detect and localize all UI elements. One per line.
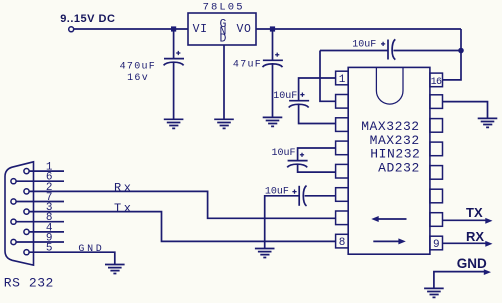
svg-text:9..15V DC: 9..15V DC	[60, 13, 115, 25]
DB9 connector body	[5, 162, 34, 265]
node junction at 470uF	[171, 26, 176, 31]
IC right pin boxes	[430, 73, 443, 250]
label RS 232	[4, 275, 54, 290]
svg-text:MAX232: MAX232	[370, 133, 420, 148]
DB9 pin 7 stub	[16, 201, 64, 203]
label 47uF	[233, 60, 262, 71]
label GND (DB9)	[78, 244, 104, 255]
node junction VCC C1	[458, 48, 464, 54]
ground (470uF)	[164, 119, 184, 128]
svg-text:RS 232: RS 232	[4, 275, 54, 290]
label 470uF 16v	[120, 61, 157, 84]
DB9 pin 4 stub	[29, 231, 64, 233]
label C4 10uF	[265, 187, 289, 198]
svg-text:MAX3232: MAX3232	[361, 119, 419, 134]
IC left pin boxes	[336, 71, 349, 248]
capacitor C2 10uF (pins 1-3)	[289, 93, 309, 108]
svg-text:HIN232: HIN232	[370, 147, 420, 162]
IC notch	[376, 67, 403, 104]
label RX	[466, 229, 484, 244]
label HIN232	[370, 147, 420, 162]
svg-text:16v: 16v	[127, 73, 149, 84]
label TX	[466, 205, 483, 220]
wire VO 5V rail	[256, 28, 461, 30]
svg-text:GND: GND	[78, 244, 104, 255]
wire pin 1 to C2	[299, 78, 336, 101]
wire pin 15 to ground	[443, 102, 488, 119]
svg-text:470uF: 470uF	[120, 61, 157, 72]
wire C3 to pin 5	[298, 165, 336, 172]
ground (pin15)	[478, 118, 498, 127]
ground (output)	[424, 288, 444, 297]
svg-text:10uF: 10uF	[352, 39, 376, 50]
svg-text:78L05: 78L05	[203, 1, 245, 13]
DB9 pin circles left column 6,7,8,9	[11, 179, 16, 245]
ground (47uF)	[263, 117, 283, 126]
label 9..15V DC	[60, 13, 115, 25]
capacitor C4 10uF (pin 6)	[292, 186, 306, 206]
regulator U 78L05 box	[188, 13, 256, 45]
node junction at 47uF	[270, 26, 275, 31]
label C2 10uF	[273, 91, 297, 102]
wire junction down to C 470uF	[173, 29, 175, 59]
label MAX232	[370, 133, 420, 148]
label C1 10uF	[352, 39, 376, 50]
input terminal circle	[69, 27, 74, 32]
svg-text:AD232: AD232	[378, 161, 420, 176]
label 78L05	[203, 1, 245, 13]
DB9 pin 1 stub	[29, 170, 64, 172]
label Rx	[114, 181, 134, 195]
DB9 pin circles right column 1,2,3,4,5	[24, 169, 29, 255]
DB9 pin numbers	[46, 162, 53, 255]
wire GND out	[434, 269, 491, 288]
label C3 10uF	[272, 148, 296, 159]
wire RX out	[443, 241, 493, 247]
arrow right (RX direction)	[373, 238, 406, 244]
wire input to VI	[74, 28, 188, 30]
pin label GND vertical	[220, 18, 227, 46]
ground (DB9 pin5)	[105, 265, 125, 274]
svg-text:Tx: Tx	[114, 201, 134, 215]
wire pin 4 to C3	[298, 148, 336, 161]
wire C2 to pin 3	[299, 105, 336, 124]
svg-text:10uF: 10uF	[273, 91, 297, 102]
pin number 16	[431, 77, 442, 88]
wire junction down to C 47uF	[272, 29, 274, 60]
ground (78L05)	[214, 119, 234, 128]
wire C4 bar side to ground	[265, 196, 300, 249]
svg-text:Rx: Rx	[114, 181, 134, 195]
wire DB9 pin5 to ground	[29, 252, 115, 264]
wire 78L05 GND pin to ground	[223, 45, 225, 119]
pin label VI	[193, 23, 208, 36]
svg-text:GND: GND	[457, 256, 487, 271]
wire C 470uF to ground	[173, 63, 175, 119]
capacitor C 47uF	[263, 53, 283, 68]
svg-text:VO: VO	[237, 23, 252, 36]
wire Tx pin3 to pin8 of IC	[29, 212, 336, 242]
svg-text:9: 9	[433, 239, 440, 251]
DB9 pin 9 stub	[16, 241, 64, 243]
IC U1 body	[348, 67, 430, 254]
pin number 1	[339, 74, 346, 86]
arrow left (TX direction)	[371, 216, 406, 222]
label GND out	[457, 256, 487, 271]
pin label VO	[237, 23, 252, 36]
svg-text:8: 8	[339, 237, 346, 249]
wire VCC node to pin 16	[443, 51, 461, 80]
label AD232	[378, 161, 420, 176]
pin number 8	[339, 237, 346, 249]
wire rail corner down to VCC node	[460, 29, 462, 51]
svg-text:D: D	[220, 33, 227, 46]
label Tx	[114, 201, 134, 215]
svg-text:10uF: 10uF	[272, 148, 296, 159]
DB9 pin 6 stub	[16, 180, 64, 182]
capacitor C1 10uF (top)	[381, 39, 395, 59]
wire Rx pin2 to pin7 of IC	[29, 191, 336, 218]
label MAX3232	[361, 119, 419, 134]
svg-text:1: 1	[339, 74, 346, 86]
wire C1 right to VCC node	[393, 50, 461, 52]
wire C 47uF to ground	[272, 65, 274, 118]
pin number 9	[433, 239, 440, 251]
svg-text:TX: TX	[466, 205, 483, 220]
wire jog down to pin 2	[320, 51, 336, 102]
capacitor C3 10uF (pins 4-5)	[287, 153, 307, 168]
DB9 pin 8 stub	[16, 221, 64, 223]
svg-text:47uF: 47uF	[233, 60, 262, 71]
svg-text:VI: VI	[193, 23, 208, 36]
wire C4 arc side to pin 6	[305, 195, 336, 197]
capacitor C 470uF	[164, 51, 184, 66]
wire TX out	[443, 218, 493, 224]
wire C1 left to pin2 jog	[320, 50, 388, 52]
svg-text:16: 16	[431, 77, 442, 88]
svg-text:RX: RX	[466, 229, 484, 244]
ground (C4 / pin6)	[255, 249, 275, 258]
